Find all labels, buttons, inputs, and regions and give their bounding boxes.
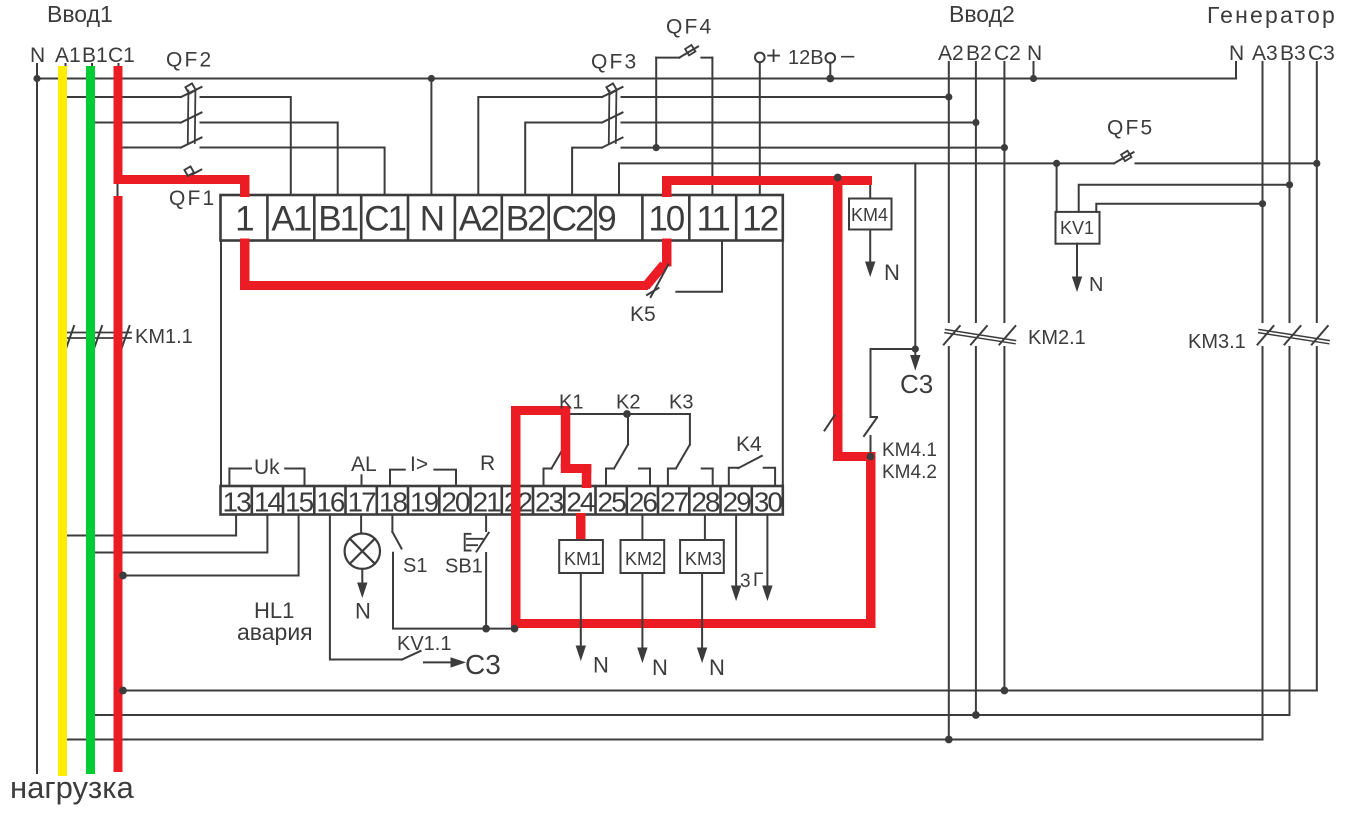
svg-text:A2: A2 [459,200,498,239]
black overlays above red [119,166,874,694]
svg-text:K1: K1 [559,392,583,414]
svg-text:нагрузка: нагрузка [10,770,135,805]
wire -12V to N bus [829,63,831,79]
wire A2 phase line through QF3 [478,97,949,195]
wire terminal 9 to QF5 [619,163,1057,195]
wire terminal 14 to phase B sense [91,515,268,553]
svg-text:QF1: QF1 [169,187,216,210]
wire red K1 step [561,464,592,473]
wire N input2 [1033,62,1035,79]
contactor KM1.1 [64,326,131,350]
wire B3 generator vertical [1289,62,1291,715]
svg-text:N: N [1229,42,1244,65]
wire red down right side [866,452,876,628]
svg-text:A1: A1 [55,44,81,67]
svg-text:23: 23 [535,487,564,518]
wire red below terminal 24 to KM1 [576,513,586,540]
svg-text:N: N [1089,274,1103,296]
svg-text:AL: AL [351,453,377,476]
wire N bus top [37,78,1236,80]
node red KM4 branch junction [834,174,842,182]
svg-text:24: 24 [566,487,595,518]
wire A3 generator vertical [1262,62,1264,740]
node QF5 right on C3 [1313,160,1320,167]
wire KM1 coil feed and N arrow [580,573,582,647]
node N input1 junction [33,75,40,82]
node C2 junction [1001,144,1008,151]
load bus phase A [67,739,1263,741]
svg-text:N: N [652,655,668,680]
svg-text:KM4.1: KM4.1 [882,440,937,461]
svg-text:N: N [884,260,900,285]
contact KV1.1 [402,651,421,660]
breaker QF5 [1057,151,1317,164]
terminal -12V battery [826,53,836,63]
svg-text:B1: B1 [318,200,357,239]
contact K1 [544,414,588,486]
svg-text:KV1.1: KV1.1 [397,633,451,655]
svg-text:30: 30 [754,487,783,518]
wire A2 input2 vertical [948,62,950,740]
svg-text:KM4: KM4 [851,205,888,225]
svg-text:26: 26 [629,487,658,518]
pushbutton SB1 [465,533,489,552]
svg-text:N: N [30,44,45,67]
svg-text:Г: Г [753,570,763,591]
wire KM2 coil feed and N arrow [641,515,643,650]
breaker QF1 [193,170,202,175]
highlighted circuit path red [114,175,876,628]
labels top terminal row [235,200,777,239]
svg-text:B2: B2 [506,200,545,239]
svg-text:авария: авария [237,619,313,645]
svg-text:N: N [1027,42,1042,65]
wire terminal 13 to phase A sense [63,515,236,536]
svg-text:21: 21 [473,487,502,518]
svg-text:Ввод1: Ввод1 [47,1,113,27]
svg-text:27: 27 [660,487,689,518]
box device outline right edge [782,241,784,487]
svg-text:B1: B1 [82,44,108,67]
svg-text:12: 12 [742,200,777,239]
svg-text:19: 19 [410,487,439,518]
svg-text:KM1.1: KM1.1 [135,326,193,348]
node C3 control junction [912,345,919,352]
svg-text:14: 14 [254,487,283,518]
wire terminal 29 output arrow [735,515,737,587]
svg-text:16: 16 [316,487,345,518]
node KM4.1 to red junction [867,453,875,461]
node A2 junction [945,93,952,100]
breaker QF3 [602,83,623,147]
svg-text:KM4.2: KM4.2 [882,462,937,483]
wire red bottom horizontal [511,619,876,628]
node K2 on bus [623,410,631,418]
switch S1 [392,532,401,549]
wire KM3 coil feed and N arrow [702,515,705,650]
labels bottom terminal row [223,487,783,518]
svg-text:C3: C3 [1308,42,1335,65]
wire C1 black stub at QF1 gap [117,182,119,197]
svg-text:KM3: KM3 [685,549,722,569]
node KV1/B3 junction [1286,181,1293,188]
wire red K bus segment [511,406,570,415]
node A2 on load bus [945,736,953,744]
wire B2 input2 vertical [975,62,977,715]
svg-text:Генератор: Генератор [1207,2,1337,28]
contact K1 common bus [566,413,690,415]
svg-text:Uk: Uk [254,456,280,479]
wire red through K1 [561,406,571,469]
wire SB1 lower to common [485,553,487,629]
svg-text:K5: K5 [630,303,656,326]
wire KV1 to N arrow [1076,244,1078,277]
contact K5 tick [647,288,659,295]
svg-text:N: N [420,200,443,239]
wire B2 phase line through QF3 [525,123,976,196]
svg-text:A2: A2 [938,42,964,65]
wire terminal 30 output arrow [766,515,768,587]
svg-text:KV1: KV1 [1060,218,1094,238]
feeder bar C1 red upper [114,66,123,184]
node S1/SB1 common on red [511,625,519,633]
wire red into terminal 24 [582,464,592,488]
relay KM2 coil box [621,540,665,573]
wire KM4.1 branch [864,349,915,454]
wire B1 tick under label [91,64,93,72]
svg-text:K2: K2 [616,392,640,414]
svg-text:KM3.1: KM3.1 [1188,331,1246,353]
wire red into terminal 10 [662,239,672,267]
node SB1 common junction [482,625,490,633]
wire red K5 horizontal [240,281,648,290]
contactor KM3.1 [1258,326,1330,345]
svg-text:KM2: KM2 [625,549,662,569]
terminal block top row [221,195,783,241]
terminal block bottom row [221,486,783,515]
svg-text:13: 13 [223,487,252,518]
svg-text:QF5: QF5 [1107,117,1154,140]
svg-text:K3: K3 [669,392,693,414]
node terminal-N / bus junction [428,75,435,82]
node sense C on feeder C1 [119,572,127,580]
wire B1 phase branch to QF2 [95,123,338,196]
node B2 on load bus [972,711,980,719]
node -12V on N bus [826,75,834,83]
breaker QF4 [656,45,712,58]
wire terminal 16 to KV1.1 [330,515,402,660]
wire red KM4 contact drop [833,176,843,461]
svg-text:15: 15 [285,487,314,518]
feeder bar B1 green [86,66,95,774]
wire QF4 left leg to C2 line [655,58,657,148]
wire A1 phase branch to QF2 [67,97,291,195]
svg-text:A3: A3 [1252,42,1278,65]
wire KV1 pin3 from A3 [1096,204,1262,212]
relay KM1 coil box [559,540,603,573]
wire terminal 17 to lamp [360,515,362,534]
wire KV1 pin1 from QF5 tap [1056,163,1058,212]
svg-text:29: 29 [723,487,752,518]
wire C2 input2 vertical [1003,62,1005,691]
svg-text:–: – [841,42,855,69]
node QF4 tap on C2 line [653,144,660,151]
terminal +12V battery [755,53,765,63]
wire C1 phase branch to QF2 [122,148,385,196]
svg-text:C1: C1 [364,200,405,239]
svg-text:25: 25 [598,487,627,518]
wire red to KM4 branch [662,176,872,185]
svg-text:11: 11 [697,200,730,239]
load bus phase C [122,690,1317,692]
svg-text:S1: S1 [403,555,427,577]
contact K4 [729,456,775,486]
svg-text:A1: A1 [271,200,310,239]
wire red below terminal 1 [240,239,250,289]
relay KM4 coil box [849,199,892,230]
wire N input1 vertical [36,64,38,773]
svg-text:B3: B3 [1280,42,1306,65]
wire red through terminal 22 [511,406,521,628]
label bracket Uk [229,469,304,486]
svg-text:12В: 12В [788,47,824,69]
svg-text:C2: C2 [994,42,1021,65]
wire S1 lower to common [393,553,512,629]
wire terminal 11 to K5 [676,241,722,292]
svg-text:20: 20 [441,487,470,518]
wire KV1 pin2 from B3 [1079,185,1290,212]
wire C3 generator vertical [1316,62,1318,691]
wire C2 phase line through QF3 [572,148,1004,195]
contactor KM2.1 [944,326,1016,345]
svg-text:+: + [766,41,781,71]
svg-text:QF2: QF2 [166,49,213,72]
load bus phase B [95,714,1290,716]
svg-text:28: 28 [691,487,720,518]
svg-text:N: N [355,599,371,624]
node QF5 left / KV1 tap [1053,160,1060,167]
wire red above terminal 10 [662,176,672,197]
relay KM3 coil box [680,540,724,573]
contact K3 [668,414,713,486]
node N input2 on bus [1030,75,1037,82]
svg-text:C1: C1 [108,44,135,67]
svg-text:QF4: QF4 [666,16,713,39]
lamp HL1 [345,534,380,569]
relay KV1 [1056,212,1100,244]
wire terminal N up to bus [430,79,432,196]
label bracket I-greater [390,470,456,485]
wire terminal 15 to phase C sense [118,515,299,576]
svg-text:KM1: KM1 [564,549,601,569]
wire C3 arrow stub [914,349,916,356]
wire QF4 right leg to terminal 11 [711,58,713,195]
contact KM4.2 tick [825,416,835,431]
wire C1 tick under label [118,64,120,72]
node B2 junction [972,119,979,126]
svg-text:9: 9 [597,200,615,239]
feeder bar C1 red lower [114,196,123,772]
svg-text:QF3: QF3 [591,51,638,74]
svg-text:C2: C2 [552,200,593,239]
svg-text:3: 3 [740,571,751,592]
svg-text:Ввод2: Ввод2 [949,1,1015,27]
svg-text:R: R [480,452,495,475]
svg-text:С3: С3 [900,369,933,399]
breaker QF2 [181,83,202,147]
wire red into terminal 1 [240,175,250,197]
svg-text:SB1: SB1 [445,556,483,578]
svg-text:B2: B2 [966,42,992,65]
feeder bar A1 yellow [58,66,67,776]
wire KM4 coil feed [869,182,871,199]
wire terminal 18 to S1 [391,515,393,532]
svg-text:18: 18 [379,487,408,518]
wire C3 control branch [914,163,916,349]
svg-text:I>: I> [410,453,428,476]
svg-text:K4: K4 [736,433,762,456]
node KV1/A3 junction [1259,200,1266,207]
wire KV1.1 to C3 arrow [424,661,452,663]
node load bus C on feeder C1 [119,687,127,695]
svg-text:10: 10 [648,200,684,239]
svg-text:С3: С3 [465,649,501,680]
wire red jog right [833,452,876,461]
svg-text:17: 17 [348,487,377,518]
contact K5 arm [651,265,669,298]
wire red K5 diagonal [642,262,668,290]
wire red QF1 branch [114,175,250,184]
wire KM4 to N arrow [869,230,871,263]
wire terminal 21 to SB1 [485,515,487,532]
wire HL1 to N arrow [361,569,363,583]
svg-text:N: N [709,655,725,680]
label tick AL [361,475,363,485]
svg-text:1: 1 [235,200,253,239]
wire N generator [1235,62,1237,79]
wire A1 tick under label [65,64,67,72]
svg-text:N: N [593,653,609,678]
node C2 on load bus [1001,687,1009,695]
wire +12V to terminal 12 [759,62,761,195]
box device outline left edge [220,241,222,487]
contact K2 [606,414,650,486]
svg-text:KM2.1: KM2.1 [1028,327,1086,349]
